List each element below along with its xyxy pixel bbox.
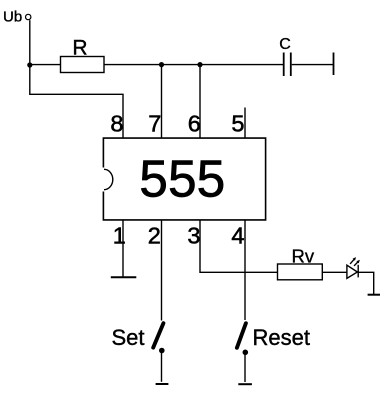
capacitor C left plate bbox=[283, 53, 285, 77]
junction dot pin6 bbox=[197, 62, 202, 67]
wire pin 6 stub bbox=[199, 65, 201, 138]
svg-text:8: 8 bbox=[110, 110, 123, 136]
IC U1 555 timer body bbox=[103, 138, 265, 220]
terminal bar right of C bbox=[333, 53, 335, 76]
junction dot A (Ub rail) bbox=[27, 62, 32, 67]
notch on 555 body bbox=[104, 169, 113, 189]
svg-text:R: R bbox=[72, 36, 87, 59]
resistor Rv bbox=[278, 264, 323, 280]
svg-text:3: 3 bbox=[187, 223, 200, 249]
svg-text:2: 2 bbox=[148, 223, 161, 249]
LED arrow 2 bbox=[354, 260, 360, 266]
wire Ub down to junction bbox=[29, 20, 31, 65]
wire pin 1 to ground bbox=[122, 220, 124, 277]
terminal Ub circle bbox=[26, 14, 31, 19]
wire C to right terminal bbox=[292, 64, 334, 66]
LED arrow 1 bbox=[350, 257, 356, 264]
wire pin 2 down to Set switch bbox=[161, 220, 163, 321]
svg-text:555: 555 bbox=[139, 150, 225, 208]
switch Reset contact dot bbox=[243, 350, 249, 356]
svg-text:5: 5 bbox=[231, 110, 244, 136]
ground Set bbox=[156, 383, 169, 385]
svg-text:C: C bbox=[279, 36, 291, 53]
wire R to capacitor C bbox=[104, 64, 283, 66]
ground Reset bbox=[238, 383, 252, 385]
wire junction A down and over to pin 8 bbox=[30, 65, 123, 138]
wire pin 5 stub (open) bbox=[244, 108, 246, 139]
LED D1 triangle bbox=[347, 265, 358, 278]
svg-text:Set: Set bbox=[112, 325, 145, 350]
svg-text:1: 1 bbox=[113, 223, 126, 249]
wire junction A to resistor R bbox=[30, 64, 61, 66]
wire LED to ground corner bbox=[358, 272, 374, 294]
resistor R bbox=[61, 57, 105, 73]
svg-text:Rv: Rv bbox=[292, 245, 315, 266]
svg-text:Reset: Reset bbox=[253, 325, 310, 350]
wire pin 7 stub bbox=[161, 65, 163, 138]
switch Set lever bbox=[153, 323, 163, 347]
svg-text:Ub: Ub bbox=[3, 8, 22, 25]
ground LED bbox=[368, 294, 380, 296]
switch Set contact dot bbox=[159, 348, 165, 354]
wire Rv to LED bbox=[322, 271, 347, 273]
svg-text:6: 6 bbox=[188, 110, 201, 136]
wire pin 3 down and right to Rv bbox=[200, 220, 278, 272]
junction dot pin7 bbox=[159, 62, 164, 67]
wire Set to ground bbox=[161, 353, 163, 382]
wire Reset to ground bbox=[244, 355, 246, 383]
svg-text:7: 7 bbox=[148, 110, 161, 136]
switch Reset lever bbox=[237, 323, 246, 348]
capacitor C right plate bbox=[290, 53, 292, 77]
ground pin 1 bbox=[111, 276, 137, 278]
LED D1 cathode bar bbox=[357, 265, 359, 278]
svg-text:4: 4 bbox=[231, 223, 244, 249]
wire pin 4 down to Reset switch bbox=[244, 220, 246, 320]
